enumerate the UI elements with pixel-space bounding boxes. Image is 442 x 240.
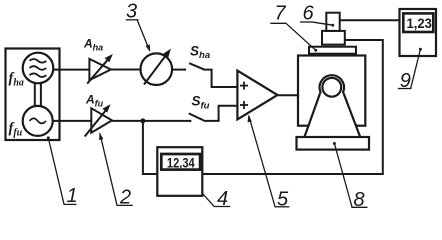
svg-text:5: 5	[277, 188, 289, 210]
svg-text:12,34: 12,34	[167, 156, 195, 172]
svg-text:2: 2	[119, 187, 131, 209]
svg-text:8: 8	[354, 189, 365, 211]
svg-text:1,23: 1,23	[407, 15, 433, 31]
svg-text:3: 3	[126, 1, 137, 23]
svg-text:1: 1	[67, 185, 78, 207]
svg-text:4: 4	[217, 188, 228, 210]
svg-text:7: 7	[275, 3, 287, 25]
svg-text:9: 9	[400, 70, 411, 92]
svg-text:6: 6	[303, 2, 315, 24]
